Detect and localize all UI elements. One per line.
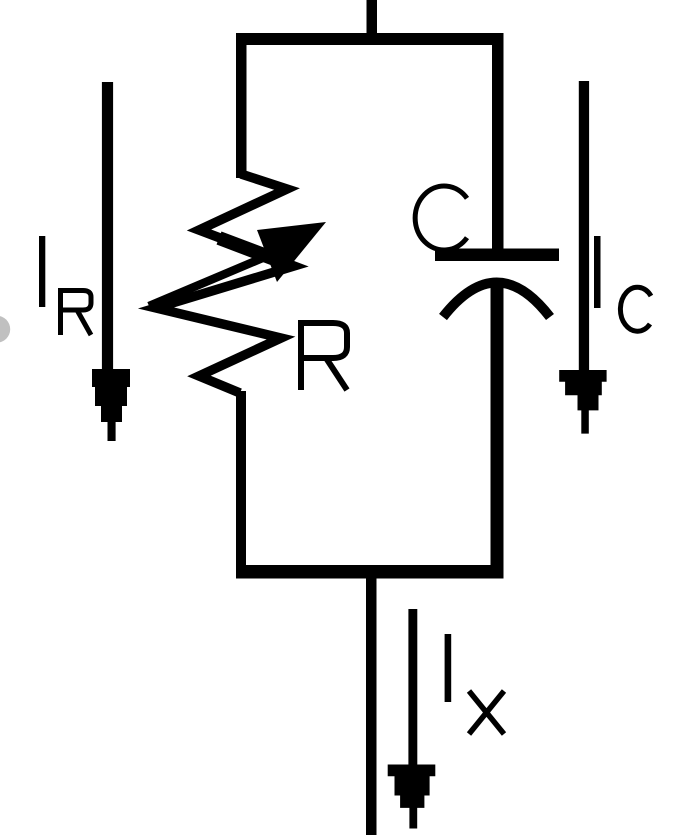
current arrow I_X shaft: [408, 609, 417, 765]
resistor R1 variable arrow shaft: [149, 254, 272, 306]
label I_X : I stroke: [445, 634, 452, 702]
current arrow I_X head: [388, 765, 436, 829]
label I_R : I stroke: [39, 236, 45, 307]
label C (capacitor): [415, 186, 467, 250]
capacitor C1 top plate: [435, 249, 559, 262]
label I_C : I stroke: [594, 236, 601, 308]
wire right branch lower: [491, 282, 504, 574]
wire right branch upper: [492, 40, 504, 250]
resistor R1 zig-arrow fused blob: [219, 238, 285, 263]
label I_R : subscript R: [58, 290, 91, 335]
current arrow I_R head: [92, 369, 130, 441]
current arrow I_C shaft: [579, 81, 589, 371]
wire bottom bus: [236, 565, 504, 579]
resistor R1 zigzag: [156, 174, 294, 393]
current arrow I_C head: [559, 370, 606, 434]
wire left branch lower: [236, 391, 246, 574]
wire left branch upper: [236, 40, 247, 178]
label I_X : subscript x: [469, 691, 504, 734]
label R (resistor value): [298, 322, 347, 390]
label I_C : subscript c: [620, 287, 651, 331]
wire bottom lead: [366, 570, 377, 835]
capacitor C1 bottom curved plate: [443, 283, 550, 318]
wire top lead: [367, 0, 378, 40]
current arrow I_R shaft: [102, 82, 113, 372]
resistor R1 variable arrowhead: [257, 222, 326, 282]
wire top bus: [236, 33, 504, 45]
